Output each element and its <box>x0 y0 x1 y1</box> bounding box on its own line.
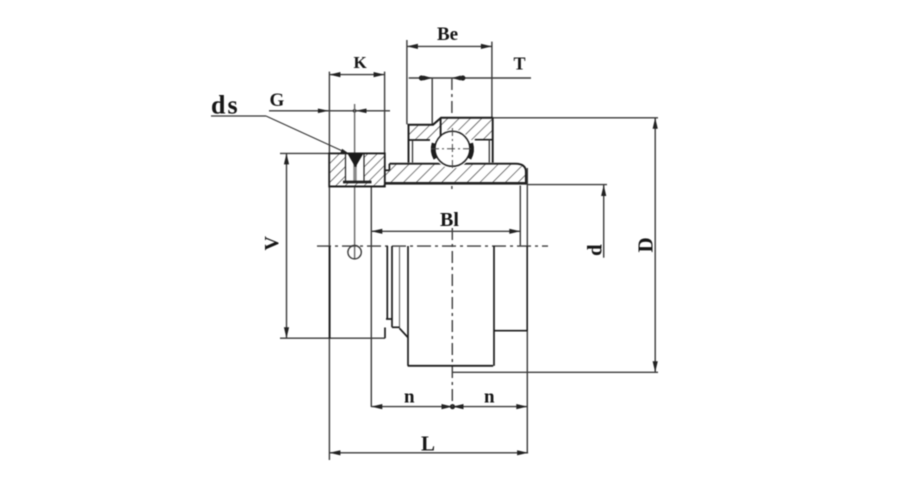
d dimension <box>527 185 607 258</box>
svg-text:Bl: Bl <box>440 209 459 231</box>
Bl dimension <box>371 186 520 247</box>
svg-text:ds: ds <box>211 91 240 120</box>
ball <box>431 128 474 170</box>
screw centerline <box>354 104 356 154</box>
V dimension <box>280 153 385 338</box>
bottom view <box>330 246 528 366</box>
sleeve band (inner ring) <box>343 164 526 185</box>
svg-text:n: n <box>404 387 415 408</box>
svg-text:T: T <box>514 54 526 74</box>
svg-text:Be: Be <box>437 24 458 45</box>
slot walls <box>345 153 347 181</box>
bore line <box>343 181 372 184</box>
ds label leader <box>211 116 352 156</box>
eccentric collar <box>329 153 385 186</box>
centerline horizontal <box>317 245 548 247</box>
phi circle on centerline <box>348 246 361 259</box>
seal lines <box>412 140 414 163</box>
outer ring <box>408 118 494 169</box>
svg-text:V: V <box>261 236 283 251</box>
L dimension <box>329 72 528 460</box>
ball centerline vertical <box>451 78 453 192</box>
D dimension <box>453 118 658 372</box>
Be dimension <box>407 40 492 124</box>
svg-text:L: L <box>421 432 435 456</box>
n dimensions <box>371 168 527 453</box>
screw shank grey <box>353 154 356 183</box>
lube mark <box>440 118 442 140</box>
svg-text:D: D <box>634 237 658 252</box>
G dimension <box>269 109 390 114</box>
svg-text:K: K <box>354 53 368 72</box>
T dimension <box>409 75 531 124</box>
svg-text:G: G <box>270 90 285 111</box>
svg-text:n: n <box>484 387 495 408</box>
svg-text:d: d <box>583 244 607 256</box>
screw head V <box>348 154 364 167</box>
K dimension <box>329 72 384 156</box>
